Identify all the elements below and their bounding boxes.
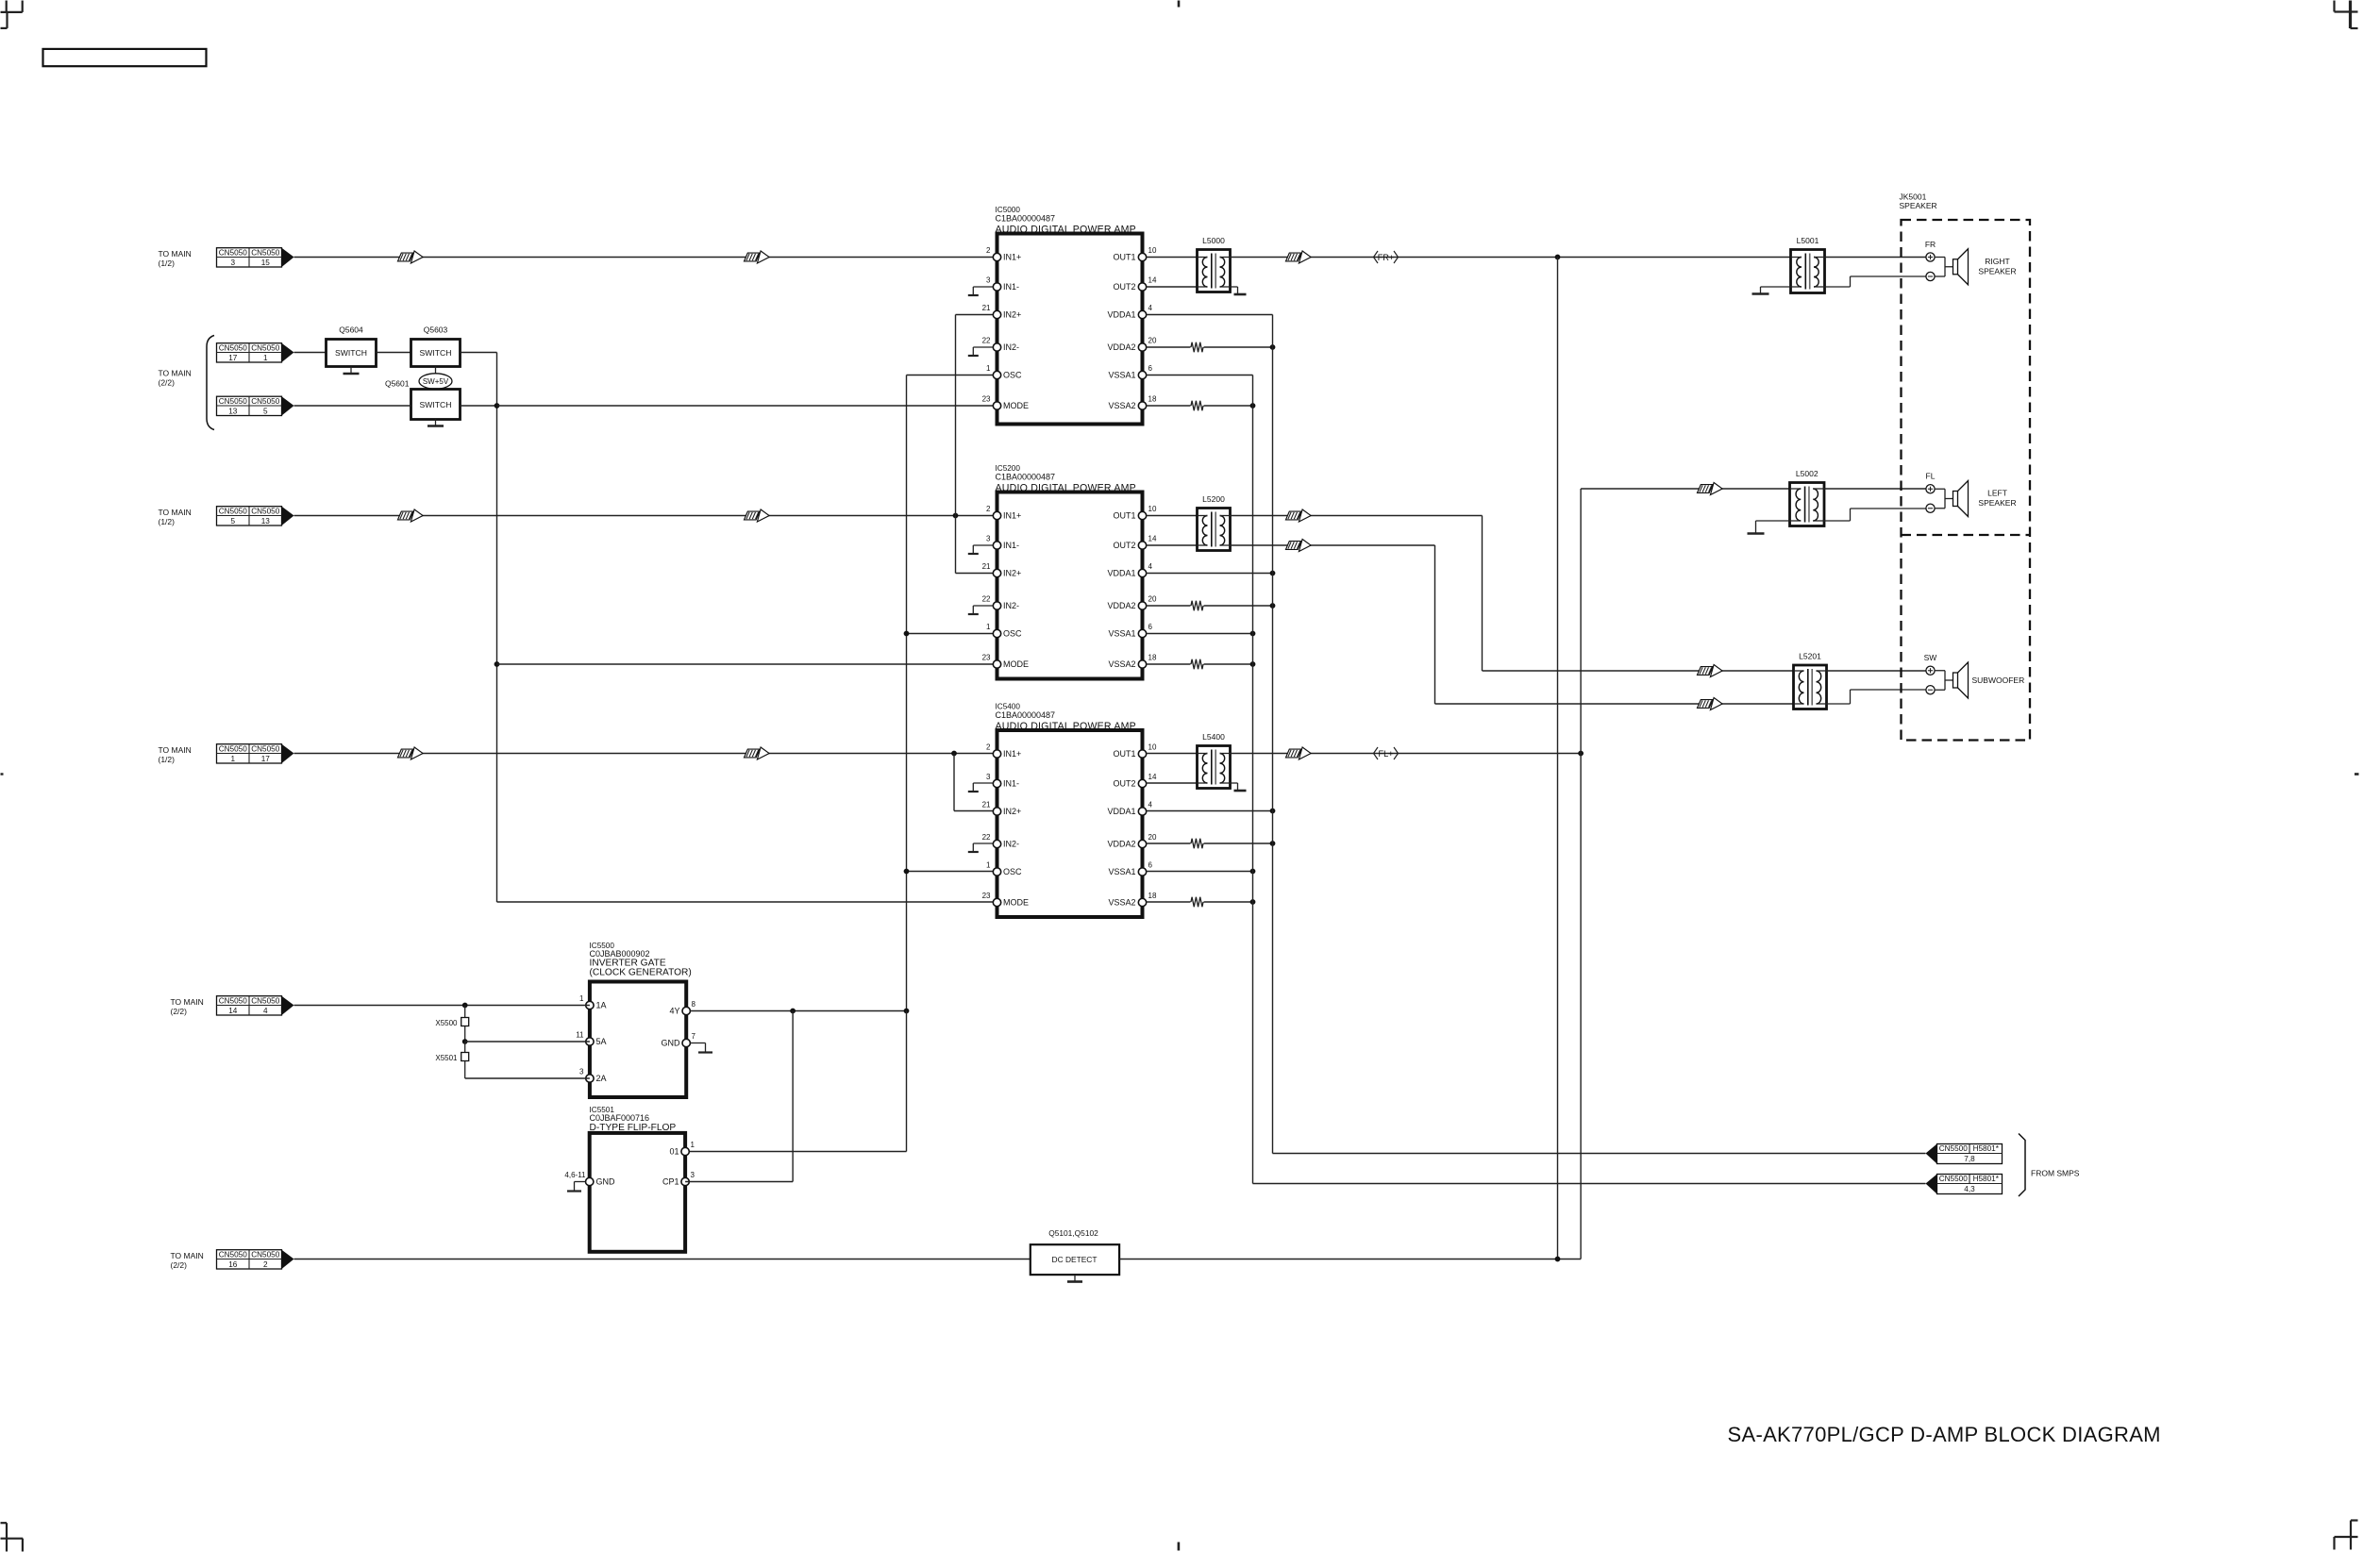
IC5400 pin 14 OUT2 (1138, 779, 1146, 787)
wire FR+ riser to DC detect (1557, 258, 1559, 1259)
svg-text:1: 1 (230, 755, 235, 763)
wire OUT1 IC5000 to L5000 (1147, 257, 1198, 259)
wire VDDA1 IC5200 (1147, 573, 1273, 575)
wire FL riser L5002 feed (1580, 489, 1582, 1259)
net SW+5V (435, 367, 437, 375)
hatch arrow FL+ (1286, 749, 1301, 758)
svg-text:VDDA2: VDDA2 (1107, 342, 1135, 352)
svg-text:CN5050: CN5050 (219, 343, 247, 352)
IC5000 pin 4 VDDA1 (1138, 310, 1146, 318)
resistor VSSA2 IC5400 (1191, 897, 1203, 907)
IC5400 pin 21 IN2+ (993, 808, 1000, 815)
edge tick right (2355, 773, 2359, 776)
svg-text:22: 22 (982, 337, 991, 345)
svg-text:11: 11 (576, 1031, 584, 1040)
svg-text:OUT2: OUT2 (1113, 779, 1135, 789)
svg-text:6: 6 (1148, 861, 1153, 870)
svg-text:FR+: FR+ (1378, 253, 1395, 262)
svg-text:(2/2): (2/2) (171, 1260, 188, 1270)
resistor VDDA2 IC5200 (1191, 601, 1203, 610)
wire 2A input (465, 1077, 590, 1079)
node VDDA bus IC5200 b (1270, 603, 1276, 609)
wire DC detect output (1119, 1259, 1557, 1260)
svg-text:IN1-: IN1- (1003, 282, 1019, 292)
node 4Y / OSC bus (904, 1009, 910, 1014)
crop mark top-left (6, 1, 8, 12)
svg-text:X5500: X5500 (435, 1019, 458, 1027)
ground IC5500 pin7 (691, 1043, 706, 1044)
IC5400 pin 4 VDDA1 (1138, 808, 1146, 815)
svg-text:01: 01 (669, 1147, 679, 1157)
svg-text:(1/2): (1/2) (159, 755, 176, 764)
hatch arrow L5002 in (1698, 485, 1713, 493)
wire VDDA2 IC5200 (1147, 605, 1191, 607)
IC5000 pin 20 VDDA2 (1138, 343, 1146, 351)
node IN2+ bus / IN1+ IC5400 (951, 751, 957, 757)
net label FR+ (1374, 251, 1379, 263)
inductor L5200 (1198, 509, 1231, 551)
ground below Q5601 (435, 420, 437, 426)
svg-text:L5002: L5002 (1796, 469, 1819, 478)
svg-text:CN5050: CN5050 (251, 248, 279, 257)
IC5200 pin 20 VDDA2 (1138, 602, 1146, 609)
svg-text:3: 3 (986, 276, 991, 285)
wire 4Y output (691, 1010, 907, 1012)
IC5400 pin 18 VSSA2 (1138, 898, 1146, 906)
svg-text:16: 16 (228, 1260, 238, 1269)
svg-text:FROM SMPS: FROM SMPS (2031, 1169, 2080, 1178)
node VDDA bus IC5200 a (1270, 571, 1276, 576)
svg-text:1: 1 (986, 623, 991, 631)
IC5400 pin 3 IN1- (993, 779, 1000, 787)
node VDDA bus IC5000 (1270, 344, 1276, 350)
svg-text:4: 4 (1148, 562, 1153, 571)
svg-text:IN1-: IN1- (1003, 779, 1019, 789)
svg-text:TO MAIN: TO MAIN (159, 369, 192, 378)
svg-text:L5001: L5001 (1797, 236, 1819, 245)
svg-text:CN5050: CN5050 (251, 996, 279, 1005)
node IN2+ bus / IN1+ IC5200 (953, 513, 959, 519)
wire OUT1 IC5200 to L5200 (1147, 515, 1198, 517)
svg-text:14: 14 (1148, 773, 1157, 781)
IC5000 pin 18 VSSA2 (1138, 402, 1146, 409)
svg-text:TO MAIN: TO MAIN (171, 1251, 204, 1260)
svg-text:3: 3 (579, 1068, 584, 1076)
svg-text:VSSA1: VSSA1 (1108, 371, 1135, 380)
crop mark bottom-center tick (1178, 1543, 1181, 1551)
svg-text:OUT2: OUT2 (1113, 541, 1135, 550)
svg-text:4,3: 4,3 (1964, 1185, 1975, 1193)
wire IN1+ IC5400 row (294, 753, 997, 755)
node VSSA bus IC5000 (1250, 403, 1256, 409)
node VDDA bus IC5400 a (1270, 809, 1276, 814)
wire IN2+ bus IC5000-IC5200 (955, 315, 957, 574)
svg-text:18: 18 (1148, 892, 1157, 900)
node OSC bus / IC5200 (904, 631, 910, 637)
svg-text:1: 1 (986, 861, 991, 870)
IC5400 pin 20 VDDA2 (1138, 840, 1146, 847)
hatch arrow row2 b (745, 511, 760, 520)
IC5200 pin 4 VDDA1 (1138, 569, 1146, 576)
crop mark top-right (2333, 1, 2335, 12)
svg-text:(2/2): (2/2) (171, 1007, 188, 1016)
svg-text:Q5604: Q5604 (339, 325, 363, 335)
svg-text:CN5050: CN5050 (219, 996, 247, 1005)
wire MODE to IC5200 (497, 663, 997, 665)
svg-text:SPEAKER: SPEAKER (1900, 201, 1937, 210)
hatch arrow FR+ (1286, 253, 1301, 261)
IC5000 pin 6 VSSA1 (1138, 371, 1146, 378)
wire VSSA1 IC5400 (1147, 871, 1253, 873)
node MODE bus / Q5601 (494, 403, 500, 409)
IC5500 pin 3 2A (586, 1075, 594, 1082)
ground stub IN1- IC5200 (973, 544, 993, 546)
node VSSA bus IC5400 a (1250, 869, 1256, 875)
connector CN5500/H5801* 4,3 (1937, 1175, 2003, 1194)
svg-text:SW: SW (1924, 653, 1937, 662)
svg-text:20: 20 (1148, 833, 1157, 842)
node 4Y / CP1 branch (790, 1009, 796, 1014)
svg-text:L5400: L5400 (1202, 732, 1225, 742)
svg-text:VDDA1: VDDA1 (1107, 569, 1135, 578)
svg-text:IN1-: IN1- (1003, 541, 1019, 550)
IC5200 pin 2 IN1+ (993, 511, 1000, 519)
svg-text:5: 5 (263, 407, 268, 415)
svg-text:14: 14 (1148, 276, 1157, 285)
svg-text:OUT1: OUT1 (1113, 511, 1135, 521)
wire IN1+ IC5200 row (294, 515, 997, 517)
ground L5002 primary (1756, 520, 1790, 522)
edge tick left (1, 773, 4, 775)
svg-text:22: 22 (982, 833, 991, 842)
svg-text:CN5500: CN5500 (1939, 1175, 1968, 1183)
svg-text:IN2-: IN2- (1003, 840, 1019, 849)
svg-text:SUBWOOFER: SUBWOOFER (1972, 676, 2025, 685)
svg-text:22: 22 (982, 595, 991, 604)
inductor L5002 (1790, 483, 1825, 526)
svg-text:2A: 2A (596, 1074, 607, 1083)
IC5000 pin 10 OUT1 (1138, 253, 1146, 260)
connector CN5500/H5801* 7,8 (1937, 1144, 2003, 1164)
node MODE bus / IC5200 (494, 661, 500, 667)
svg-text:SW+5V: SW+5V (423, 377, 449, 386)
svg-text:(1/2): (1/2) (159, 259, 176, 268)
crop mark top-center tick (1178, 1, 1181, 8)
svg-text:3: 3 (230, 259, 235, 267)
svg-text:IN2-: IN2- (1003, 342, 1019, 352)
svg-text:CP1: CP1 (662, 1177, 679, 1187)
ground stub IN2- IC5200 (973, 605, 993, 607)
wire connector to Q5601 (294, 405, 411, 407)
IC5000 pin 2 IN1+ (993, 253, 1000, 260)
ground stub IN2- IC5400 (973, 842, 993, 844)
svg-text:C1BA00000487: C1BA00000487 (996, 213, 1056, 223)
svg-text:MODE: MODE (1003, 401, 1029, 410)
wire VSSA bus (1252, 375, 1254, 1184)
wire VDDA1 IC5000 (1147, 314, 1273, 316)
wire VSSA2 IC5200 (1147, 663, 1191, 665)
svg-text:MODE: MODE (1003, 659, 1029, 669)
wire OUT2 IC5200 to L5200 (1147, 544, 1198, 546)
node VSSA bus IC5200 a (1250, 631, 1256, 637)
svg-text:1A: 1A (596, 1001, 607, 1010)
hatch arrow row3 a (398, 749, 413, 758)
svg-text:CN5050: CN5050 (251, 397, 279, 406)
svg-text:7: 7 (692, 1032, 696, 1041)
svg-text:4Y: 4Y (669, 1007, 679, 1016)
inductor L5001 (1791, 250, 1825, 293)
svg-text:L5000: L5000 (1202, 236, 1225, 245)
IC5000 pin 22 IN2- (993, 343, 1000, 351)
inductor L5201 (1794, 665, 1827, 709)
svg-text:17: 17 (228, 354, 238, 362)
IC5400 pin 10 OUT1 (1138, 750, 1146, 758)
node VSSA bus IC5200 b (1250, 661, 1256, 667)
IC5200 pin 1 OSC (993, 629, 1000, 637)
svg-text:VSSA2: VSSA2 (1108, 898, 1135, 908)
ground L5400 secondary (1231, 782, 1238, 784)
wire VDDA2 IC5400 (1147, 842, 1191, 844)
svg-text:10: 10 (1148, 743, 1157, 752)
svg-text:CN5050: CN5050 (251, 343, 279, 352)
svg-text:6: 6 (1148, 364, 1153, 373)
svg-text:TO MAIN: TO MAIN (159, 508, 192, 517)
svg-text:SPEAKER: SPEAKER (1978, 498, 2016, 508)
svg-text:VSSA1: VSSA1 (1108, 867, 1135, 876)
svg-text:IN1+: IN1+ (1003, 253, 1021, 262)
svg-text:TO MAIN: TO MAIN (171, 997, 204, 1007)
wire 5A input (465, 1041, 590, 1043)
connector CN5050 16/2 (217, 1250, 282, 1269)
svg-text:10: 10 (1148, 505, 1157, 513)
ground stub IN2- IC5000 (973, 346, 993, 348)
svg-text:IN1+: IN1+ (1003, 511, 1021, 521)
wire VSSA2 IC5400 (1147, 901, 1191, 903)
svg-text:20: 20 (1148, 595, 1157, 604)
svg-text:TO MAIN: TO MAIN (159, 745, 192, 755)
IC5000 pin 23 MODE (993, 402, 1000, 409)
svg-text:1: 1 (691, 1141, 696, 1149)
svg-text:IN2+: IN2+ (1003, 807, 1021, 816)
hatch arrow L5200 top (1286, 511, 1301, 520)
svg-text:SWITCH: SWITCH (420, 400, 452, 409)
ground below Q5604 (350, 367, 352, 375)
wire 01 riser (906, 1011, 908, 1152)
svg-text:21: 21 (982, 304, 991, 312)
wire VDDA1 IC5400 (1147, 810, 1273, 812)
connector CN5050 3/15 (217, 248, 282, 267)
svg-text:FL+: FL+ (1378, 749, 1393, 759)
svg-text:(1/2): (1/2) (159, 517, 176, 526)
svg-text:IN2-: IN2- (1003, 601, 1019, 610)
svg-text:8: 8 (692, 1000, 696, 1009)
node DC detect / FR riser (1555, 1257, 1561, 1262)
svg-text:CN5050: CN5050 (251, 507, 279, 515)
wire IN1+ IC5000 row (294, 257, 997, 259)
wire L5201 bottom to SW- terminal (1827, 703, 1851, 705)
svg-text:DC DETECT: DC DETECT (1052, 1255, 1098, 1264)
svg-text:14: 14 (228, 1007, 238, 1015)
svg-text:(CLOCK GENERATOR): (CLOCK GENERATOR) (590, 968, 692, 978)
svg-text:IN2+: IN2+ (1003, 310, 1021, 320)
svg-text:L5201: L5201 (1799, 652, 1821, 661)
node FL+ / L5002 riser (1578, 751, 1584, 757)
ground L5000 secondary (1231, 286, 1238, 288)
svg-text:GND: GND (596, 1177, 616, 1187)
wire L5002 bottom to FL- terminal (1824, 520, 1851, 522)
svg-text:13: 13 (261, 517, 271, 525)
svg-text:SWITCH: SWITCH (420, 348, 452, 358)
node X5500 top (462, 1003, 468, 1009)
IC5500 pin 1 1A (586, 1001, 594, 1009)
node OSC bus / IC5400 (904, 869, 910, 875)
hatch arrow row2 a (398, 511, 413, 520)
wire VDDA2 IC5000 (1147, 346, 1191, 348)
svg-text:H5801*: H5801* (1973, 1144, 2000, 1153)
group bracket (207, 336, 214, 430)
connector JK5001 dashed box (1902, 220, 2031, 741)
wire 1A input (294, 1005, 590, 1007)
IC5501 pin 1 01 (681, 1147, 689, 1155)
svg-text:VDDA2: VDDA2 (1107, 840, 1135, 849)
speaker LEFT SPEAKER (1926, 485, 1935, 493)
crop mark bottom-right (2351, 1519, 2358, 1521)
svg-text:VDDA2: VDDA2 (1107, 601, 1135, 610)
svg-text:C0JBAF000716: C0JBAF000716 (590, 1113, 650, 1123)
bracket FROM SMPS (2019, 1134, 2025, 1197)
svg-text:CN5500: CN5500 (1939, 1144, 1968, 1153)
svg-text:7,8: 7,8 (1964, 1155, 1975, 1163)
IC5200 pin 6 VSSA1 (1138, 629, 1146, 637)
IC5500 pin 8 4Y (682, 1007, 690, 1014)
wire OUT2 IC5400 to L5400 (1147, 782, 1198, 784)
IC5500 pin 11 5A (586, 1038, 594, 1045)
wire OUT1 IC5400 to L5400 (1147, 753, 1198, 755)
node X5500 bottom / 5A (462, 1039, 468, 1044)
svg-text:OSC: OSC (1003, 629, 1022, 639)
svg-text:14: 14 (1148, 535, 1157, 543)
resistor VDDA2 IC5400 (1191, 839, 1203, 848)
svg-text:(2/2): (2/2) (159, 378, 176, 388)
svg-text:C0JBAB000902: C0JBAB000902 (590, 949, 650, 959)
svg-text:Q5603: Q5603 (424, 325, 448, 335)
hatch arrow row1 a (398, 253, 413, 261)
svg-text:4,6-11: 4,6-11 (564, 1171, 586, 1179)
node VSSA bus IC5400 b (1250, 899, 1256, 905)
wire VDDA bus (1272, 315, 1274, 1154)
IC5000 pin 3 IN1- (993, 283, 1000, 291)
svg-text:23: 23 (982, 892, 991, 900)
wire CP1 to 4Y (685, 1181, 793, 1183)
wire OUT2 IC5000 to L5000 (1147, 286, 1198, 288)
hatch arrow SW+ in (1698, 667, 1713, 676)
svg-text:3: 3 (986, 535, 991, 543)
svg-text:2: 2 (986, 246, 991, 255)
svg-text:OUT2: OUT2 (1113, 282, 1135, 292)
svg-text:CN5050: CN5050 (219, 1250, 247, 1259)
svg-text:CN5050: CN5050 (219, 744, 247, 753)
wire L5002 to FL terminal (1824, 488, 1926, 490)
hatch arrow row1 b (745, 253, 760, 261)
wire L5200 secondary top to SW+ (1231, 515, 1483, 517)
svg-text:OUT1: OUT1 (1113, 749, 1135, 759)
svg-text:CN5050: CN5050 (251, 1250, 279, 1259)
node VDDA bus IC5400 b (1270, 841, 1276, 846)
svg-text:2: 2 (986, 743, 991, 752)
svg-text:IN2+: IN2+ (1003, 569, 1021, 578)
connector CN5050 14/4 (217, 996, 282, 1015)
svg-text:20: 20 (1148, 337, 1157, 345)
JK5001 dashed divider (1902, 534, 2031, 536)
wire MODE bus vertical (496, 353, 498, 903)
wire MODE to IC5000 (497, 405, 997, 407)
title box (empty) (43, 49, 207, 66)
inductor L5400 (1198, 746, 1231, 789)
svg-text:21: 21 (982, 801, 991, 809)
svg-text:CN5050: CN5050 (219, 507, 247, 515)
svg-text:C1BA00000487: C1BA00000487 (996, 710, 1056, 720)
wire VSSA1 IC5200 (1147, 633, 1253, 635)
wire OSC stub IC5400 (907, 871, 997, 873)
wire L5000 secondary to FR+ (1231, 257, 1791, 259)
wire L5200 secondary bottom to SW- (1231, 544, 1435, 546)
IC5200 pin 14 OUT2 (1138, 542, 1146, 549)
svg-text:18: 18 (1148, 654, 1157, 662)
svg-text:CN5050: CN5050 (219, 248, 247, 257)
wire L5201 to SW terminal (1827, 670, 1926, 672)
svg-text:4: 4 (263, 1007, 268, 1015)
IC5400 pin 23 MODE (993, 898, 1000, 906)
svg-text:CN5050: CN5050 (251, 744, 279, 753)
svg-text:GND: GND (662, 1039, 681, 1048)
ground L5001 primary (1761, 286, 1791, 288)
speaker SUBWOOFER (1926, 666, 1935, 675)
wire connector to Q5604 (294, 352, 327, 354)
wire TO MAIN to DC detect (294, 1259, 1031, 1260)
IC5000 pin 21 IN2+ (993, 310, 1000, 318)
wire VSSA1 IC5000 (1147, 375, 1253, 376)
hatch arrow row3 b (745, 749, 760, 758)
svg-text:VSSA2: VSSA2 (1108, 659, 1135, 669)
svg-text:4: 4 (1148, 304, 1153, 312)
IC5200 pin 3 IN1- (993, 542, 1000, 549)
svg-text:VSSA2: VSSA2 (1108, 401, 1135, 410)
svg-text:FL: FL (1926, 472, 1936, 481)
wire MODE to IC5400 (497, 901, 997, 903)
resistor VSSA2 IC5000 (1191, 401, 1203, 410)
wire Q5604 to Q5603 (377, 352, 411, 354)
IC5400 pin 22 IN2- (993, 840, 1000, 847)
IC5200 pin 22 IN2- (993, 602, 1000, 609)
svg-text:21: 21 (982, 562, 991, 571)
svg-text:5A: 5A (596, 1037, 607, 1046)
svg-text:OSC: OSC (1003, 371, 1022, 380)
svg-text:L5200: L5200 (1202, 494, 1225, 504)
svg-text:3: 3 (691, 1171, 696, 1179)
wire L5001 to FR terminal (1825, 257, 1926, 259)
svg-text:SWITCH: SWITCH (335, 348, 367, 358)
svg-text:1: 1 (579, 994, 584, 1003)
wire OSC bus (906, 375, 908, 1011)
svg-text:TO MAIN: TO MAIN (159, 249, 192, 259)
resistor VDDA2 IC5000 (1191, 342, 1203, 352)
svg-text:H5801*: H5801* (1973, 1175, 2000, 1183)
svg-text:OSC: OSC (1003, 867, 1022, 876)
IC5400 pin 6 VSSA1 (1138, 868, 1146, 876)
ground IC5501 GND (575, 1181, 586, 1183)
connector CN5050 5/13 (217, 507, 282, 525)
wire L5400 secondary to FL+ (1231, 753, 1582, 755)
